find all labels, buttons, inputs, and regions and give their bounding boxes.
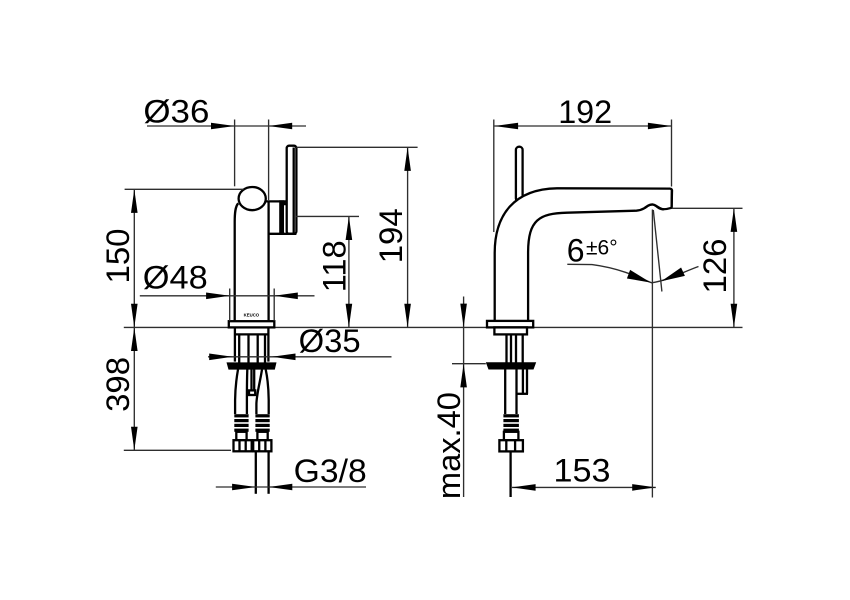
lever rod side	[516, 147, 523, 202]
shank tube front	[234, 327, 236, 361]
washer front	[227, 362, 277, 369]
angle arc right arrowhead	[661, 268, 685, 282]
stud side	[522, 368, 524, 394]
outlet vertical extension line	[651, 210, 653, 498]
hose right outer	[266, 369, 269, 414]
lever arm top edge	[266, 200, 287, 202]
angle arc	[567, 264, 698, 283]
thread lines side	[505, 334, 507, 363]
lever blade	[287, 146, 297, 234]
inlet pipe lines front	[255, 451, 257, 494]
hose right inner	[256, 369, 262, 414]
svg-text:398: 398	[100, 357, 136, 412]
svg-text:G3/8: G3/8	[294, 453, 367, 489]
svg-text:126: 126	[697, 239, 733, 294]
neck side	[494, 327, 527, 334]
svg-text:192: 192	[558, 94, 612, 130]
svg-text:KEUCO: KEUCO	[244, 313, 260, 318]
pipe side	[509, 451, 511, 497]
svg-text:±6°: ±6°	[586, 236, 618, 259]
hex nut left	[234, 440, 252, 451]
washer side	[486, 362, 536, 369]
countertop base line	[124, 326, 743, 328]
lever wedge	[284, 201, 289, 205]
ribs left	[234, 414, 248, 417]
lever attachment bar	[279, 200, 284, 234]
connector left	[236, 432, 246, 440]
handle bottom edge	[269, 233, 297, 235]
svg-text:max.40: max.40	[431, 392, 467, 499]
connector right	[257, 432, 267, 440]
faucet body right edge	[267, 202, 269, 321]
base flange side	[487, 321, 533, 328]
svg-text:Ø36: Ø36	[143, 93, 209, 129]
svg-text:194: 194	[373, 208, 409, 263]
hose left inner	[246, 369, 249, 414]
thread top line	[235, 333, 269, 335]
svg-text:6: 6	[567, 233, 585, 269]
thread stripes front	[238, 334, 240, 362]
faucet body left edge	[235, 203, 239, 321]
outlet tilted 6deg line	[653, 210, 662, 292]
hex nut right	[253, 440, 271, 451]
hex nut side	[499, 440, 523, 451]
svg-text:Ø35: Ø35	[299, 323, 361, 359]
svg-text:153: 153	[554, 453, 611, 489]
ribs right	[255, 414, 269, 417]
lever blade inner line	[293, 148, 295, 234]
svg-text:150: 150	[100, 229, 136, 284]
connector side	[504, 432, 519, 440]
svg-text:118: 118	[317, 240, 353, 292]
faucet body outline side	[495, 188, 672, 321]
hose left outer	[235, 369, 238, 414]
angle arc left arrowhead	[627, 270, 651, 283]
stud nut front	[249, 390, 255, 395]
stud lines front	[250, 369, 252, 390]
aerator notch thick stroke	[644, 204, 664, 209]
hose side	[504, 368, 506, 414]
knob circle	[239, 187, 266, 210]
base flange front	[229, 321, 274, 327]
svg-text:Ø48: Ø48	[143, 260, 208, 296]
spout end face	[670, 190, 673, 208]
ribs side	[503, 414, 519, 417]
